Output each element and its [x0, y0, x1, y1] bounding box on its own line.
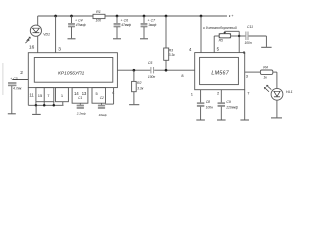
svg-text:VD1: VD1	[43, 33, 50, 37]
svg-text:3.3к: 3.3к	[169, 53, 176, 57]
svg-text:КР1056УП1: КР1056УП1	[58, 71, 85, 77]
svg-text:15: 15	[38, 93, 43, 98]
svg-text:C4: C4	[78, 19, 83, 23]
svg-text:5: 5	[96, 91, 98, 96]
svg-text:к +: к +	[229, 14, 234, 18]
svg-text:10мф: 10мф	[99, 113, 108, 117]
svg-text:C3: C3	[13, 77, 17, 81]
svg-text:+: +	[148, 18, 150, 22]
svg-text:к 9 многооборотный: к 9 многооборотный	[203, 26, 237, 30]
svg-text:C9: C9	[226, 100, 230, 104]
svg-text:100н: 100н	[206, 105, 213, 109]
svg-text:+: +	[121, 18, 123, 22]
svg-text:+: +	[10, 77, 12, 81]
svg-text:2.2мф: 2.2мф	[76, 111, 86, 115]
svg-text:R4: R4	[263, 65, 268, 69]
svg-text:1к: 1к	[263, 75, 267, 79]
svg-text:C1: C1	[78, 96, 82, 100]
svg-text:C5: C5	[148, 61, 153, 65]
svg-text:R5: R5	[219, 38, 223, 42]
svg-text:16: 16	[29, 45, 35, 51]
svg-text:2: 2	[20, 70, 23, 76]
svg-text:220мкф: 220мкф	[225, 105, 238, 109]
svg-text:100: 100	[96, 19, 102, 23]
svg-text:1мкф: 1мкф	[148, 23, 156, 27]
svg-text:C8: C8	[206, 100, 210, 104]
svg-text:47мкф: 47мкф	[121, 23, 131, 27]
svg-text:100н: 100н	[245, 41, 252, 45]
svg-text:100н: 100н	[148, 75, 156, 79]
svg-text:R1: R1	[96, 10, 101, 14]
svg-text:R2: R2	[137, 81, 142, 85]
svg-text:3.3к: 3.3к	[137, 87, 144, 91]
svg-text:HL1: HL1	[286, 90, 293, 94]
svg-text:LM567: LM567	[211, 70, 229, 76]
svg-text:C11: C11	[247, 25, 253, 29]
svg-text:+: +	[75, 18, 77, 22]
svg-text:8: 8	[181, 73, 183, 78]
svg-text:47мкф: 47мкф	[76, 23, 86, 27]
svg-text:C6: C6	[124, 19, 129, 23]
svg-text:4.7мк: 4.7мк	[13, 86, 22, 90]
svg-text:3: 3	[58, 46, 61, 52]
svg-text:13: 13	[82, 91, 87, 96]
svg-text:C2: C2	[100, 96, 104, 100]
svg-text:11: 11	[29, 92, 34, 97]
